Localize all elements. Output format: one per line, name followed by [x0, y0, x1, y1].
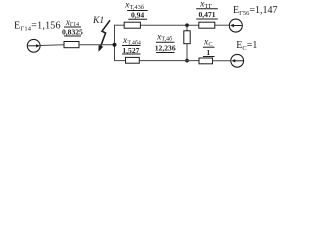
junction dot on middle branch: [113, 43, 117, 47]
wire: source E_Г14 to resistor x_Г14: [40, 44, 64, 47]
svg-text:EС=1: EС=1: [236, 40, 257, 52]
resistor x_Г14 (box): [64, 42, 79, 48]
label x_С / 1: [203, 37, 215, 57]
label x_Т,464 / 1,527: [122, 35, 141, 55]
wire: resistor 0,471 to source E_Г56: [215, 24, 230, 26]
svg-text:К1: К1: [92, 15, 104, 26]
EMF source E_Г56: circle with left arrow: [229, 19, 242, 32]
svg-text:0,94: 0,94: [131, 10, 144, 19]
wire: vertical resistor down to bottom junction: [186, 44, 188, 61]
wire: resistor x_Г14 to junction node: [79, 44, 115, 46]
wire: resistor x_С to source E_С: [213, 60, 232, 62]
EMF source E_Г14: circle with right arrow: [27, 39, 40, 52]
resistor x_С (box, bottom branch): [199, 58, 213, 64]
svg-text:12,236: 12,236: [155, 44, 176, 53]
svg-text:0,471: 0,471: [198, 10, 215, 19]
svg-text:1,527: 1,527: [122, 46, 139, 55]
junction dot on top branch: [185, 23, 189, 27]
EMF source E_С: circle with left arrow: [231, 54, 244, 67]
resistor x_Т,436 (box, top branch): [124, 22, 140, 28]
lightning bolt at fault point K1: [99, 20, 110, 51]
label x_1Т / 0,471: [196, 0, 218, 19]
wire: resistor 0,94 to junction dot on top branch: [140, 24, 198, 26]
label x_Г14 / 0,8325: [62, 17, 83, 37]
svg-text:1: 1: [206, 48, 210, 57]
wire: resistor 1,527 to resistor x_С: [139, 60, 199, 62]
wire: vertical branch from top junction down to vertical resistor: [186, 25, 188, 31]
resistor x_Т,464 (box, bottom branch): [126, 57, 140, 63]
wire: top branch from bus to resistor 0,94: [114, 24, 124, 26]
label x_Т,436 / 0,94: [124, 0, 148, 19]
label x_Т,46 / 12,236: [155, 31, 176, 52]
resistor x_1Т (box, top branch): [199, 22, 215, 28]
svg-text:0,8325: 0,8325: [62, 28, 83, 37]
junction dot on bottom branch: [185, 59, 189, 63]
wire: bottom branch from bus to resistor 1,527: [114, 60, 126, 62]
vertical bus wire at junction (connects top, middle, bottom branches): [114, 25, 116, 60]
resistor x_Т,46 (vertical box): [184, 31, 190, 44]
